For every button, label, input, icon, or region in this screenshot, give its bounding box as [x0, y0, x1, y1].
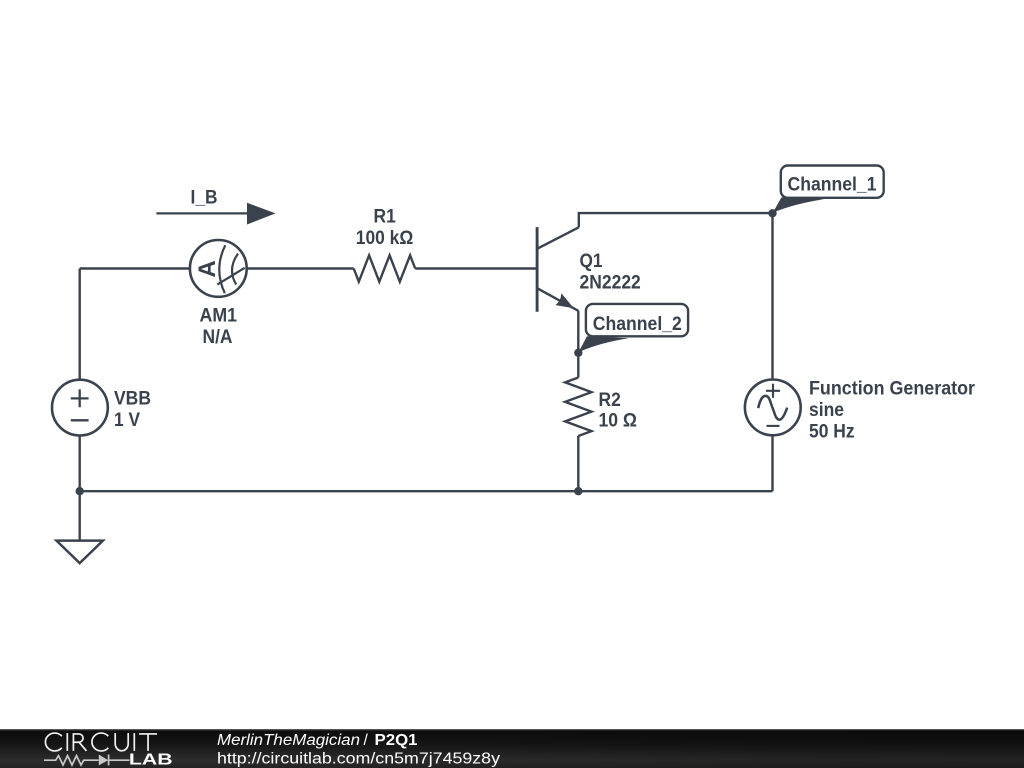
svg-text:50 Hz: 50 Hz [809, 422, 855, 443]
transistor Q1 [537, 227, 579, 312]
resistor R2 [565, 378, 591, 437]
ground [57, 541, 103, 564]
wire function generator to bottom rail [771, 435, 773, 491]
wire emitter to R2 [577, 311, 579, 378]
junction dot Channel_2 node [574, 349, 582, 357]
wire VBB bottom to ground junction [78, 435, 80, 540]
junction dot Channel_1 node [768, 209, 776, 217]
wire left rail top corner to VBB [78, 269, 80, 380]
junction dot R2 / bottom rail [574, 487, 582, 495]
junction dot left rail / bottom rail [76, 487, 84, 495]
wire bottom rail [80, 490, 773, 492]
function generator V1 [745, 380, 801, 436]
svg-text:LAB: LAB [129, 752, 173, 768]
svg-text:/: / [364, 732, 369, 749]
wire ammeter to R1 [247, 267, 354, 269]
svg-text:MerlinTheMagician: MerlinTheMagician [217, 732, 360, 749]
svg-text:Q1: Q1 [580, 251, 603, 272]
ammeter AM1 [190, 240, 247, 297]
current arrow I_B [156, 203, 275, 225]
resistor R1 [354, 255, 416, 281]
svg-text:2N2222: 2N2222 [580, 272, 641, 293]
wire R2 to bottom rail [577, 436, 579, 491]
CircuitLab logo wordmark CIRCUIT [45, 733, 157, 751]
CircuitLab logo resistor-diode glyph [44, 755, 130, 766]
svg-text:http://circuitlab.com/cn5m7j74: http://circuitlab.com/cn5m7j7459z8y [217, 751, 500, 768]
svg-text:A: A [194, 260, 221, 277]
node Channel_2 flag [579, 304, 689, 352]
svg-text:R1: R1 [374, 206, 397, 227]
svg-text:sine: sine [809, 400, 844, 421]
wire main horizontal: rail to ammeter [80, 267, 190, 269]
svg-text:10 Ω: 10 Ω [599, 411, 638, 432]
node Channel_1 flag [773, 166, 884, 213]
footer bar [0, 729, 1024, 768]
wire right rail: node to function generator [771, 213, 773, 380]
svg-text:R2: R2 [599, 390, 621, 411]
svg-text:AM1: AM1 [200, 306, 238, 327]
voltage source VBB [52, 380, 108, 436]
svg-text:I_B: I_B [191, 188, 218, 209]
wire collector top to Channel_1 node [579, 213, 773, 227]
svg-text:N/A: N/A [203, 327, 233, 348]
svg-text:P2Q1: P2Q1 [375, 732, 418, 749]
svg-text:VBB: VBB [114, 389, 151, 410]
svg-text:Function Generator: Function Generator [809, 379, 976, 400]
wire R1 to Q1 base [415, 267, 537, 269]
svg-text:Channel_2: Channel_2 [593, 314, 682, 335]
svg-text:1 V: 1 V [114, 410, 140, 431]
svg-text:100 kΩ: 100 kΩ [356, 228, 414, 249]
svg-text:Channel_1: Channel_1 [788, 175, 877, 196]
